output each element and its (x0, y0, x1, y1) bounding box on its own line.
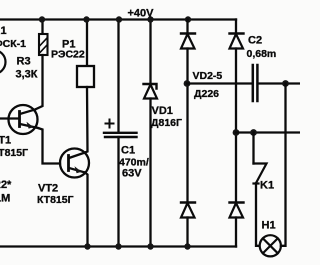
capacitor C2 0,68m plates (252, 65, 255, 101)
wire C1 top (rail to C1) (117, 20, 119, 133)
svg-text:Д816Г: Д816Г (151, 117, 182, 129)
svg-text:K1: K1 (260, 180, 274, 192)
node C1 top rail junction (116, 16, 122, 22)
diode VD3 triangle (230, 34, 244, 49)
node R3 top rail junction (39, 16, 45, 22)
wire relay coil bottom to VT2 collector (85, 87, 88, 153)
transistor VT1 emitter diagonal (20, 124, 38, 128)
wire K1 to lamp left (256, 184, 260, 246)
svg-text:ФСК-1: ФСК-1 (0, 38, 26, 50)
node C1 bottom rail junction (115, 243, 121, 249)
wire bridge right vertical middle (235, 49, 237, 203)
wire K1 branch upper (252, 133, 254, 164)
zener VD1 triangle (144, 85, 157, 99)
wire top +40V rail (0, 18, 236, 20)
svg-text:VD1: VD1 (152, 105, 173, 117)
diode VD4 cathode bar (181, 201, 195, 203)
transistor VT1 collector diagonal (20, 110, 35, 115)
node VT2 emitter bottom rail junction (84, 243, 90, 249)
node relay top rail junction (83, 16, 89, 22)
wire bridge left vertical lower (186, 218, 188, 247)
wire C2 right plate to page edge (259, 82, 300, 84)
svg-text:Д226: Д226 (194, 88, 219, 100)
node lamp branch top junction (282, 80, 289, 87)
sensor R1 ФСК-1 circle (cut at left edge) (0, 50, 6, 74)
wire lamp right up to AC1 (281, 84, 286, 246)
capacitor C1 plates (104, 132, 137, 134)
zener VD1 D816G cathode bar with hook (144, 84, 157, 89)
svg-text:РЭС22: РЭС22 (51, 49, 85, 61)
resistor R3 3,3K (hatched body) (39, 34, 48, 55)
node VD1 top rail junction (147, 16, 153, 22)
svg-text:КТ815Г: КТ815Г (0, 147, 28, 159)
transistor VT1 base bar (18, 112, 21, 127)
svg-text:VT1: VT1 (0, 135, 11, 147)
transistor VT1 KT815G circle (9, 105, 38, 134)
transistor VT2 emitter arrow (75, 166, 82, 173)
svg-text:КТ815Г: КТ815Г (37, 194, 74, 206)
node K1 branch junction (250, 129, 257, 136)
wire AC1 horizontal to C2 left plate (187, 82, 252, 84)
diode VD5 triangle (230, 203, 244, 218)
node VD1 bottom rail junction (147, 243, 153, 249)
transistor VT2 collector diagonal (69, 153, 85, 159)
diode VD2 cathode bar (181, 32, 195, 34)
node AC1 junction (184, 80, 191, 87)
lamp H1 cross (263, 238, 278, 253)
wire VD1 bottom to rail (149, 99, 151, 247)
node AC2 junction (233, 129, 240, 136)
wire VT1 emitter to VT2 base (38, 128, 60, 164)
wire VT1 base lead (0, 117, 20, 119)
wire C1 bottom to rail (117, 137, 119, 247)
diode VD3 cathode bar (230, 32, 244, 34)
svg-text:R2*: R2* (0, 179, 12, 191)
capacitor C1 plus sign (106, 120, 114, 128)
svg-text:1М: 1М (0, 193, 10, 205)
wire relay coil top (rail to coil) (86, 20, 88, 67)
svg-text:0,68m: 0,68m (247, 48, 277, 60)
wire bottom rail (0, 245, 236, 247)
wire R3 bottom to VT1 collector (35, 55, 43, 110)
wire R3 top (rail to R3) (41, 20, 43, 35)
wire bridge right vertical upper (corner from rail) (235, 20, 237, 34)
wire VD1 top (rail to zener) (149, 20, 151, 85)
svg-text:VD2-5: VD2-5 (193, 70, 223, 82)
svg-text:R1: R1 (0, 25, 7, 37)
svg-text:3,3К: 3,3К (16, 69, 38, 81)
wire bridge right vertical lower to bottom rail corner (235, 218, 237, 247)
node bridge left bottom rail junction (184, 243, 190, 249)
transistor VT1 emitter arrow (27, 122, 34, 129)
transistor VT2 KT815G circle (60, 149, 89, 178)
svg-text:VT2: VT2 (38, 183, 58, 195)
wire bridge left vertical upper (186, 20, 188, 34)
svg-text:C1: C1 (121, 145, 135, 157)
diode VD5 cathode bar (230, 201, 244, 203)
svg-text:R3: R3 (17, 56, 31, 68)
svg-text:63V: 63V (122, 168, 142, 180)
diode VD4 triangle (181, 203, 195, 218)
lamp H1 circle (260, 235, 281, 256)
relay contact K1 (254, 164, 267, 184)
relay coil P1 RES22 (77, 66, 94, 87)
diode VD2 triangle (181, 34, 195, 49)
svg-text:C2: C2 (248, 35, 262, 47)
transistor VT2 base bar (67, 156, 70, 171)
transistor VT2 emitter diagonal (69, 168, 85, 173)
wire bridge left vertical middle (186, 49, 188, 203)
svg-text:H1: H1 (262, 220, 276, 232)
svg-text:+40V: +40V (128, 8, 155, 20)
node bridge left top rail junction (185, 16, 191, 22)
wire AC2 horizontal to page edge (236, 131, 300, 133)
wire VT2 emitter to bottom rail (85, 173, 88, 247)
